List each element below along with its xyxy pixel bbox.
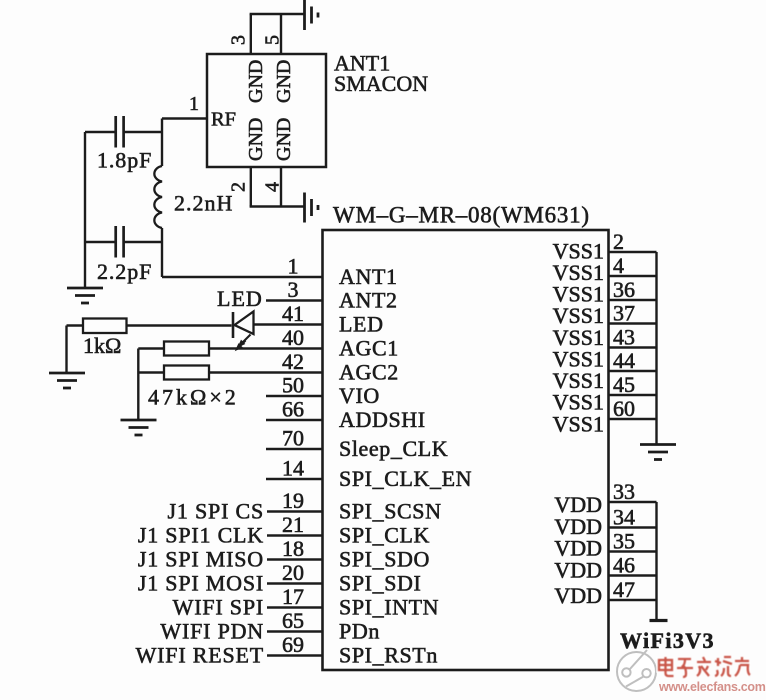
- wire VSS pin 36: [609, 299, 657, 301]
- svg-text:40: 40: [282, 325, 304, 350]
- svg-text:45: 45: [613, 372, 635, 397]
- svg-text:20: 20: [282, 560, 304, 585]
- svg-text:GND: GND: [273, 60, 295, 103]
- wire bottom to ground: [250, 205, 305, 207]
- svg-text:AGC2: AGC2: [339, 360, 399, 385]
- ground (R1): [49, 372, 85, 375]
- wire pin 69 to WIFI RESET: [267, 654, 323, 656]
- svg-text:2: 2: [613, 229, 624, 254]
- svg-text:WIFI PDN: WIFI PDN: [160, 619, 264, 644]
- wire C2 to node: [125, 241, 163, 243]
- wire VDD pin 47: [609, 599, 657, 601]
- wire R1 left lead: [67, 324, 84, 326]
- svg-text:69: 69: [282, 632, 304, 657]
- wire pin 20 to J1 SPI MOSI: [267, 582, 323, 584]
- IC WM-G-MR-08 body: [323, 230, 609, 670]
- watermark logo circle: [617, 652, 656, 691]
- wire VDD pin 33: [609, 501, 657, 503]
- wire pin2 to bottom: [250, 167, 252, 207]
- power rail WIFI3V3: [650, 619, 668, 622]
- wire VSS pin 45: [609, 394, 657, 396]
- svg-text:www.elecfans.com: www.elecfans.com: [658, 680, 766, 694]
- wire R1 to ground: [65, 326, 67, 374]
- svg-text:70: 70: [282, 426, 304, 451]
- svg-text:18: 18: [282, 536, 304, 561]
- wire node down to inductor: [161, 119, 163, 167]
- svg-text:J1 SPI MISO: J1 SPI MISO: [138, 547, 264, 572]
- svg-text:SPI_SDI: SPI_SDI: [339, 571, 421, 596]
- wire VSS pin 4: [609, 275, 657, 277]
- wire pin 21 to J1 SPI1 CLK: [267, 534, 323, 536]
- LED D1: [232, 312, 235, 338]
- resistor R1 1k ohm: [83, 319, 127, 334]
- wire left rail caps to ground: [84, 132, 86, 288]
- wire R2 left lead: [138, 347, 164, 349]
- wire rail to C1: [85, 131, 115, 133]
- svg-text:GND: GND: [273, 118, 295, 161]
- wire R3 to chip pin 42: [209, 371, 323, 373]
- svg-text:ADDSHI: ADDSHI: [339, 407, 426, 432]
- wire VDD pin 35: [609, 550, 657, 552]
- inductor L1 2.2nH: [154, 166, 162, 228]
- ground (R2,R3): [121, 419, 157, 422]
- wire R3 left lead: [138, 371, 164, 373]
- wire VSS pin 60: [609, 418, 657, 420]
- wire R2/R3 junction to ground: [137, 349, 139, 421]
- svg-text:SPI_RSTn: SPI_RSTn: [339, 643, 438, 668]
- svg-text:35: 35: [613, 529, 635, 554]
- svg-text:41: 41: [282, 301, 304, 326]
- svg-text:3: 3: [288, 277, 299, 302]
- svg-text:SPI_CLK: SPI_CLK: [339, 523, 430, 548]
- svg-text:AGC1: AGC1: [339, 336, 399, 361]
- wire pin 14 stub: [266, 478, 323, 480]
- wire pin 18 to J1 SPI MISO: [267, 558, 323, 560]
- wire pin4 to bottom: [280, 167, 282, 207]
- svg-text:37: 37: [613, 301, 635, 326]
- wire VDD bus to WIFI3V3 rail: [655, 502, 657, 620]
- svg-text:ANT1: ANT1: [339, 264, 398, 289]
- svg-text:1: 1: [189, 93, 199, 115]
- wire pin5 to top: [280, 14, 282, 54]
- svg-text:GND: GND: [245, 60, 267, 103]
- svg-text:21: 21: [282, 512, 304, 537]
- svg-text:2.2pF: 2.2pF: [97, 259, 152, 284]
- svg-text:SPI_INTN: SPI_INTN: [339, 595, 439, 620]
- wire C1 to node: [125, 131, 163, 133]
- svg-text:33: 33: [613, 479, 635, 504]
- wire VDD pin 34: [609, 526, 657, 528]
- svg-text:36: 36: [613, 277, 635, 302]
- wire pin 66 stub: [266, 419, 323, 421]
- svg-text:5: 5: [262, 35, 284, 45]
- svg-text:SPI_SDO: SPI_SDO: [339, 547, 430, 572]
- svg-text:SMACON: SMACON: [334, 71, 428, 96]
- svg-text:4: 4: [613, 253, 624, 278]
- wire VSS pin 2: [609, 251, 657, 253]
- wire pin 19 to J1 SPI CS: [267, 510, 323, 512]
- svg-text:66: 66: [282, 397, 304, 422]
- svg-text:WiFi3V3: WiFi3V3: [620, 628, 715, 653]
- svg-text:J1 SPI MOSI: J1 SPI MOSI: [138, 571, 264, 596]
- svg-text:2.2nH: 2.2nH: [174, 191, 233, 216]
- svg-text:WIFI RESET: WIFI RESET: [136, 643, 264, 668]
- svg-text:Sleep_CLK: Sleep_CLK: [339, 436, 448, 461]
- svg-text:WM–G–MR–08(WM631): WM–G–MR–08(WM631): [333, 203, 590, 228]
- wire LED to chip pin 41: [254, 323, 323, 325]
- svg-text:PDn: PDn: [339, 619, 380, 644]
- svg-text:65: 65: [282, 608, 304, 633]
- wire VSS pin 43: [609, 346, 657, 348]
- svg-text:VIO: VIO: [339, 383, 380, 408]
- watermark text dianzifashaoyou: [659, 657, 750, 677]
- svg-text:WIFI SPI: WIFI SPI: [173, 595, 264, 620]
- svg-text:VSS1: VSS1: [553, 411, 604, 436]
- svg-text:44: 44: [613, 348, 635, 373]
- svg-text:RF: RF: [211, 109, 236, 131]
- ground (top, SMACON pins 3,5): [303, 0, 306, 30]
- resistor R3 47k: [164, 366, 209, 380]
- svg-text:19: 19: [282, 488, 304, 513]
- svg-text:VDD: VDD: [554, 558, 602, 583]
- svg-text:47kΩ×2: 47kΩ×2: [148, 385, 239, 410]
- svg-text:4: 4: [262, 182, 284, 192]
- wire R1 to LED: [127, 324, 232, 326]
- svg-text:3: 3: [228, 35, 250, 45]
- wire VDD pin 46: [609, 574, 657, 576]
- svg-text:1: 1: [288, 254, 299, 279]
- svg-text:VDD: VDD: [554, 583, 602, 608]
- ground (VSS): [640, 443, 676, 446]
- svg-text:LED: LED: [217, 286, 263, 311]
- svg-text:J1 SPI CS: J1 SPI CS: [168, 499, 264, 524]
- wire node to chip pin 1: [162, 276, 323, 278]
- wire pin 70 stub: [266, 448, 323, 450]
- svg-text:ANT2: ANT2: [339, 288, 398, 313]
- ground (bottom, SMACON pins 2,4): [303, 193, 306, 223]
- connector ANT1 SMACON body: [207, 54, 326, 167]
- svg-text:1kΩ: 1kΩ: [83, 333, 121, 358]
- wire inductor to ANT1 wire: [161, 228, 163, 277]
- svg-text:14: 14: [282, 456, 304, 481]
- svg-text:43: 43: [613, 325, 635, 350]
- wire top to ground: [250, 13, 305, 15]
- ground (matching network): [67, 287, 103, 290]
- capacitor C1 1.8pF: [114, 116, 117, 148]
- capacitor C2 2.2pF: [114, 226, 117, 258]
- wire pin3 to top: [250, 14, 252, 54]
- svg-text:17: 17: [282, 584, 304, 609]
- wire VSS bus to ground: [655, 252, 657, 444]
- wire pin 65 to WIFI PDN: [267, 630, 323, 632]
- svg-text:SPI_SCSN: SPI_SCSN: [339, 499, 442, 524]
- wire RF pin to node: [162, 117, 207, 119]
- svg-text:LED: LED: [339, 312, 384, 337]
- resistor R2 47k: [164, 342, 209, 356]
- svg-text:J1 SPI1 CLK: J1 SPI1 CLK: [138, 523, 264, 548]
- wire VSS pin 44: [609, 370, 657, 372]
- svg-text:1.8pF: 1.8pF: [97, 148, 152, 173]
- svg-text:47: 47: [613, 577, 635, 602]
- svg-text:SPI_CLK_EN: SPI_CLK_EN: [339, 466, 472, 491]
- wire rail to C2: [85, 241, 115, 243]
- wire pin 50 stub: [266, 395, 323, 397]
- wire R2 to chip pin 40: [209, 347, 323, 349]
- svg-text:42: 42: [282, 349, 304, 374]
- wire pin 3 stub: [266, 299, 323, 301]
- svg-text:50: 50: [282, 373, 304, 398]
- svg-text:GND: GND: [245, 118, 267, 161]
- svg-text:34: 34: [613, 505, 635, 530]
- wire pin 17 to WIFI SPI: [267, 606, 323, 608]
- svg-text:60: 60: [613, 396, 635, 421]
- wire VSS pin 37: [609, 322, 657, 324]
- svg-text:46: 46: [613, 553, 635, 578]
